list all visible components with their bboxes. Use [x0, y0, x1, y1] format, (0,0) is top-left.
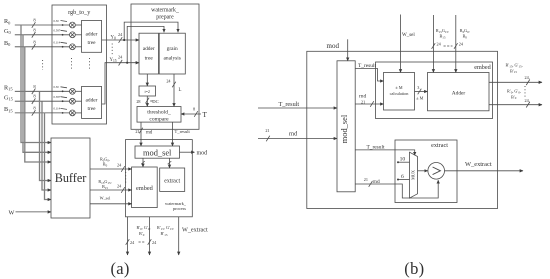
svg-text:0.114: 0.114 [54, 41, 61, 45]
svg-text:rnd: rnd [373, 179, 380, 185]
svg-text:0.30: 0.30 [54, 85, 60, 89]
svg-text:extract: extract [431, 142, 448, 149]
svg-text:6: 6 [401, 174, 404, 180]
svg-text:Y15: Y15 [110, 58, 117, 63]
svg-text:adder: adder [86, 98, 98, 104]
svg-text:tree: tree [87, 106, 96, 112]
svg-text:B′0: B′0 [511, 94, 517, 100]
svg-text:8: 8 [33, 94, 36, 99]
svg-text:mod_sel: mod_sel [340, 114, 349, 143]
svg-text:mod: mod [327, 42, 340, 50]
svg-text:0.587: 0.587 [54, 95, 61, 99]
svg-text:process: process [173, 206, 186, 211]
svg-text:8: 8 [33, 84, 36, 89]
svg-text:R15G15,: R15G15, [436, 28, 449, 34]
svg-text:rnd: rnd [146, 130, 153, 135]
svg-text:W_sel: W_sel [100, 196, 112, 201]
svg-text:3: 3 [417, 85, 419, 90]
svg-text:extract: extract [164, 179, 180, 185]
svg-text:± M: ± M [416, 95, 423, 100]
svg-text:21: 21 [361, 99, 365, 104]
svg-text:tree: tree [87, 40, 96, 46]
svg-text:G15: G15 [4, 94, 14, 101]
svg-text:grain: grain [167, 46, 178, 52]
svg-text:B0: B0 [463, 34, 468, 40]
svg-text:8: 8 [33, 105, 36, 110]
svg-text:R′15, G′15,: R′15, G′15, [506, 63, 523, 69]
svg-text:rgb_to_y: rgb_to_y [68, 9, 91, 16]
svg-text:0.587: 0.587 [54, 29, 61, 33]
svg-text:adder: adder [86, 32, 98, 38]
svg-text:21: 21 [135, 129, 139, 134]
svg-text:G0: G0 [4, 28, 11, 35]
svg-text:Buffer: Buffer [55, 171, 87, 185]
svg-text:0.30: 0.30 [54, 19, 60, 23]
svg-text:24: 24 [437, 41, 442, 46]
svg-text:R0: R0 [4, 18, 11, 25]
svg-text:B′0: B′0 [139, 231, 145, 237]
svg-text:T_result: T_result [358, 63, 376, 69]
svg-text:T_result: T_result [367, 144, 385, 150]
svg-text:tree: tree [145, 56, 154, 62]
svg-text:rnd: rnd [289, 131, 298, 138]
svg-text:B′15: B′15 [510, 68, 517, 74]
svg-text:prepare: prepare [156, 14, 174, 20]
svg-text:24: 24 [117, 163, 122, 168]
svg-text:W_extract: W_extract [182, 227, 208, 234]
svg-text:threshold_: threshold_ [147, 110, 171, 116]
svg-text:embed: embed [136, 185, 154, 192]
svg-text:8: 8 [33, 18, 36, 23]
svg-text:W_sel: W_sel [402, 33, 415, 38]
svg-text:B15: B15 [4, 106, 13, 113]
svg-text:24: 24 [166, 79, 171, 84]
svg-text:24: 24 [130, 240, 135, 245]
svg-text:24: 24 [118, 55, 123, 60]
svg-text:R15: R15 [4, 85, 13, 92]
svg-text:T: T [203, 111, 208, 119]
svg-text:embed: embed [474, 64, 491, 71]
svg-text:calculation: calculation [390, 91, 410, 96]
svg-text:analysis: analysis [164, 56, 181, 62]
svg-text:24: 24 [459, 41, 464, 46]
svg-text:(a): (a) [111, 259, 130, 278]
svg-text:W: W [9, 209, 15, 216]
svg-text:R15G15,: R15G15, [98, 179, 111, 185]
svg-text:mod_sel: mod_sel [143, 149, 172, 158]
svg-text:24: 24 [118, 32, 123, 37]
svg-text:(b): (b) [404, 259, 424, 278]
svg-text:± M: ± M [395, 85, 402, 90]
svg-text:mod: mod [197, 151, 208, 157]
svg-text:Adder: Adder [452, 91, 466, 97]
svg-text:DC: DC [152, 99, 158, 104]
svg-text:0.114: 0.114 [54, 107, 61, 111]
svg-text:8: 8 [33, 39, 36, 44]
svg-text:8: 8 [193, 107, 195, 112]
svg-text:24: 24 [152, 240, 157, 245]
svg-text:watermark_: watermark_ [151, 7, 179, 13]
svg-text:T_result: T_result [175, 129, 191, 134]
svg-text:10: 10 [400, 157, 406, 163]
svg-text:W_extract: W_extract [465, 161, 492, 168]
svg-text:B0: B0 [4, 40, 11, 47]
svg-text:21: 21 [364, 177, 368, 182]
svg-text:L: L [179, 88, 182, 93]
svg-text:compare: compare [149, 117, 169, 123]
svg-text:adder: adder [143, 46, 155, 52]
svg-text:Y0: Y0 [111, 36, 116, 41]
svg-text:B′15: B′15 [161, 231, 168, 237]
svg-text:24: 24 [117, 184, 122, 189]
svg-text:21: 21 [265, 128, 269, 133]
svg-text:i=2: i=2 [145, 89, 150, 94]
svg-text:MUX: MUX [411, 170, 416, 180]
svg-text:T_result: T_result [279, 101, 300, 108]
svg-text:8: 8 [33, 27, 36, 32]
svg-text:28: 28 [136, 99, 140, 104]
svg-text:B15: B15 [440, 34, 446, 40]
